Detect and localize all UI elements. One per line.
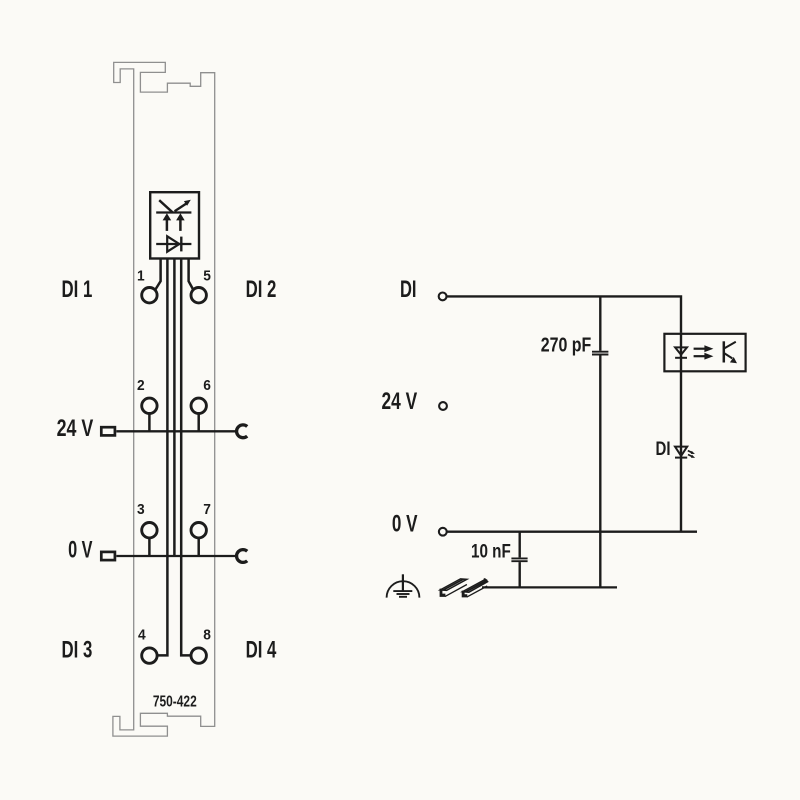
svg-text:10 nF: 10 nF bbox=[471, 540, 511, 562]
LED 1 up arrow bbox=[163, 213, 172, 231]
svg-text:DI 2: DI 2 bbox=[246, 276, 277, 303]
capacitor C1 bottom lead bbox=[599, 355, 601, 587]
pin 3 contact circle bbox=[142, 523, 157, 538]
svg-text:5: 5 bbox=[203, 267, 211, 283]
rail flange 2 bottom edge bbox=[467, 586, 487, 597]
wire DI to optocoupler bbox=[446, 296, 681, 332]
svg-text:0 V: 0 V bbox=[392, 511, 418, 538]
LED emission arrow bbox=[175, 200, 191, 212]
capacitor C1 plates bbox=[592, 352, 608, 355]
svg-text:DI: DI bbox=[400, 276, 417, 303]
electronics box U1 bbox=[150, 192, 199, 258]
rail flange 1 near foot bbox=[440, 589, 446, 597]
0V feed square terminal bbox=[101, 552, 115, 560]
wire pin 2 to 24V rail bbox=[148, 413, 151, 431]
rail flange 1 stripe bbox=[442, 579, 464, 590]
optocoupler box U2 bbox=[664, 334, 745, 372]
0V rail wire bbox=[116, 555, 236, 557]
rail flange 2 near foot bbox=[462, 591, 468, 598]
capacitor C1 270pF top lead bbox=[599, 296, 601, 350]
0V pass-through contact arc bbox=[237, 550, 248, 563]
LED pair symbol baseline in box bbox=[156, 211, 191, 213]
svg-text:DI 1: DI 1 bbox=[62, 276, 93, 303]
24V feed square terminal bbox=[101, 427, 115, 435]
capacitor C2 10nF top lead bbox=[519, 532, 521, 558]
svg-text:750-422: 750-422 bbox=[153, 692, 197, 710]
phototransistor Q1 emitter with arrow bbox=[725, 353, 738, 363]
24V pass-through contact arc bbox=[237, 425, 248, 438]
phototransistor Q1 base bar bbox=[723, 341, 726, 362]
svg-text:2: 2 bbox=[137, 377, 145, 393]
pin 4 contact circle bbox=[142, 648, 157, 663]
svg-text:8: 8 bbox=[203, 626, 211, 642]
status LED D2 emission arrow 1 bbox=[688, 451, 695, 454]
svg-text:DI 4: DI 4 bbox=[246, 637, 277, 664]
wire pin 6 to 24V rail bbox=[197, 413, 200, 431]
status LED D2 emission arrow 2 bbox=[688, 455, 695, 458]
wire box to 0V rail (middle) bbox=[173, 259, 176, 556]
24V terminal circle bbox=[439, 402, 447, 410]
pin 1 contact circle bbox=[142, 288, 157, 303]
svg-text:7: 7 bbox=[203, 501, 211, 517]
0V terminal circle bbox=[439, 528, 447, 536]
svg-text:0 V: 0 V bbox=[68, 537, 93, 564]
module outline 750-422 side profile bbox=[113, 62, 215, 736]
rail flange 2 far end cap bbox=[484, 578, 488, 582]
pin 6 contact circle bbox=[191, 398, 206, 413]
pin 2 contact circle bbox=[142, 398, 157, 413]
wire pin 3 to 0V rail bbox=[148, 538, 151, 556]
svg-text:1: 1 bbox=[137, 267, 145, 283]
svg-text:270 pF: 270 pF bbox=[541, 334, 592, 356]
svg-text:6: 6 bbox=[203, 377, 211, 393]
diode D1 triangle bbox=[167, 236, 179, 251]
pin 7 contact circle bbox=[191, 523, 206, 538]
capacitor C2 bottom lead bbox=[519, 562, 521, 587]
svg-text:4: 4 bbox=[138, 626, 146, 642]
rail flange 2 stripe bbox=[464, 580, 487, 592]
optocoupler light arrow 2 bbox=[694, 353, 714, 360]
rail flange 2 top face bbox=[463, 579, 488, 592]
pin 5 contact circle bbox=[191, 288, 206, 303]
status LED D2 cathode bar bbox=[675, 457, 687, 459]
24V rail wire bbox=[116, 430, 236, 432]
capacitor C2 plates bbox=[511, 558, 527, 561]
optocoupler LED wire through box bbox=[680, 333, 682, 532]
svg-text:DI: DI bbox=[656, 437, 671, 459]
0V rail wire schematic bbox=[446, 531, 697, 533]
DI terminal circle bbox=[439, 293, 447, 301]
optocoupler light arrow 1 bbox=[694, 345, 714, 352]
diode D1 cathode bar bbox=[180, 237, 182, 252]
svg-text:3: 3 bbox=[137, 501, 145, 517]
phototransistor Q1 collector bbox=[725, 342, 736, 349]
ground rail wire bbox=[482, 586, 617, 588]
optocoupler LED cathode bar bbox=[675, 357, 687, 359]
optocoupler LED triangle bbox=[675, 347, 687, 354]
wire box to pin 5 bbox=[189, 259, 194, 290]
rail flange 1 top face bbox=[440, 579, 467, 591]
diode D1 baseline in box bbox=[156, 243, 191, 245]
svg-text:24 V: 24 V bbox=[382, 388, 418, 414]
svg-text:DI 3: DI 3 bbox=[62, 637, 93, 664]
pin 8 contact circle bbox=[191, 648, 206, 663]
wire box to pin 8 (right inner) bbox=[181, 259, 191, 655]
DIN carrier rail symbol bbox=[440, 578, 488, 598]
LED 2 up arrow bbox=[176, 213, 185, 231]
svg-text:24 V: 24 V bbox=[57, 416, 94, 442]
LED pair diagonal stroke bbox=[159, 200, 172, 212]
wire box to pin 1 bbox=[155, 259, 161, 290]
wire box to pin 4 (left inner) bbox=[157, 259, 167, 655]
status LED D2 triangle bbox=[675, 447, 687, 456]
rail web bottom edge bbox=[445, 585, 467, 597]
earth ground symbol bbox=[387, 574, 420, 597]
wire pin 7 to 0V rail bbox=[197, 538, 200, 556]
